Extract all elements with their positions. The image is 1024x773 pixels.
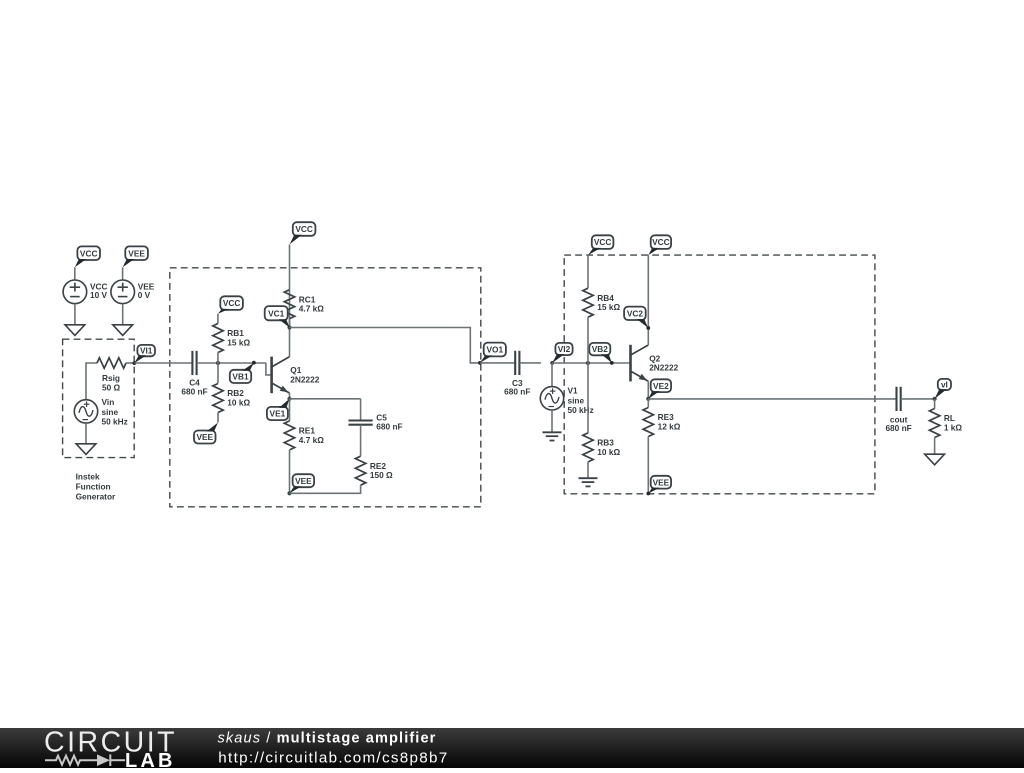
voltage source VCC [63,280,87,304]
svg-text:VE2: VE2 [653,381,669,391]
wire RE1 bottom [289,450,291,493]
node VCC [588,235,613,255]
node VE1 [267,399,290,420]
voltage source Vin (sine) [74,400,97,423]
wire VC1 to VO1 [290,328,480,363]
capacitor C5 [349,412,403,431]
node VCC [290,222,316,244]
svg-text:VC2: VC2 [627,308,644,318]
junction RB divider node stage2 [586,361,590,365]
resistor RB3 [583,433,621,462]
wire RL top [934,399,936,409]
wire C5 top [360,399,362,421]
resistor Rsig [97,358,126,393]
node VE2 [648,379,671,399]
wire [122,304,124,325]
capacitor C4 [181,351,207,397]
svg-text:VCC: VCC [295,224,313,234]
node VI2 [550,343,572,365]
wire V1 top [551,363,553,387]
wire [85,423,87,444]
wire VE1 to C5 [290,398,361,400]
svg-text:skaus / multistage amplifier: skaus / multistage amplifier [218,731,437,747]
svg-text:sine: sine [102,407,119,417]
capacitor cout [885,387,911,433]
junction VE2 node [646,397,650,401]
svg-text:10 V: 10 V [90,290,108,300]
node VCC [648,235,671,255]
annotation box Instek Function Generator [63,339,135,457]
resistor RL [929,409,962,438]
transistor Q2 [631,345,679,382]
wire Q1 base jog [266,363,271,375]
svg-text:VI2: VI2 [558,344,571,354]
resistor RB1 [213,324,251,353]
value label Vin sine 50 kHz [102,397,128,426]
wire RB1 top [217,314,219,324]
capacitor C3 [504,351,530,397]
ground (triangle) [113,325,133,336]
svg-text:Instek: Instek [76,472,100,482]
wire [122,267,124,280]
resistor RE1 [284,421,324,450]
svg-text:VCC: VCC [80,248,98,258]
svg-text:2N2222: 2N2222 [649,363,678,373]
svg-text:VI1: VI1 [140,346,153,356]
node VI1 [132,345,155,365]
wire RB2 bottom [217,413,219,423]
wire C3 right [520,362,541,364]
svg-text:10 kΩ: 10 kΩ [597,447,620,457]
wire RB1 bottom [217,353,219,364]
junction VC1 node [287,325,291,329]
junction VEE node stage1 [287,491,291,495]
wire RE2 bottom rail [290,485,361,493]
svg-text:http://circuitlab.com/cs8p8b7: http://circuitlab.com/cs8p8b7 [218,749,448,766]
ground (triangle) [65,325,85,336]
wire Q1 collector [289,328,291,357]
node VEE [194,423,218,444]
wire [134,362,192,364]
svg-text:50 Ω: 50 Ω [102,383,121,393]
anchor VB2 [610,361,614,365]
ground (bars) [543,432,562,440]
svg-text:50 kHz: 50 kHz [568,405,594,415]
svg-text:VEE: VEE [196,432,213,442]
svg-text:2N2222: 2N2222 [290,375,319,385]
wire [86,363,97,400]
wire RC1 top [289,290,291,328]
svg-text:vI: vI [941,380,948,390]
resistor RE3 [643,408,681,437]
node VEE [646,476,671,496]
junction base divider node [216,361,220,365]
wire VE2 to cout [648,398,896,400]
svg-text:680 nF: 680 nF [885,423,911,433]
wire RB3 top [587,363,589,433]
wire cout to RL [901,398,935,400]
wire [126,362,134,364]
svg-text:10 kΩ: 10 kΩ [227,398,250,408]
junction VE1 node [287,397,291,401]
svg-text:150 Ω: 150 Ω [370,470,393,480]
wire RC1 bottom [289,319,291,328]
svg-text:0 V: 0 V [138,290,151,300]
svg-text:Vin: Vin [102,397,115,407]
node VB2 [589,343,612,363]
node VCC [218,296,243,314]
svg-text:680 nF: 680 nF [181,387,207,397]
resistor RB2 [213,384,251,413]
voltage source V1 (sine) [540,387,563,410]
svg-text:680 nF: 680 nF [504,387,530,397]
resistor RE2 [355,456,393,485]
wire RE3 top [647,399,649,408]
svg-text:VEE: VEE [653,477,670,487]
annotation text Instek Function Generator [76,472,116,502]
svg-text:4.7 kΩ: 4.7 kΩ [299,304,324,314]
svg-text:VEE: VEE [295,476,312,486]
svg-text:VCC: VCC [223,298,241,308]
svg-text:VB1: VB1 [232,372,249,382]
svg-text:Generator: Generator [76,491,116,501]
node VEE [123,246,148,267]
resistor RB4 [583,288,621,317]
annotation box stage 2 [564,255,875,494]
node VC1 [265,306,290,327]
wire RB3 bottom [587,462,589,478]
wire RB4 top [587,255,589,288]
svg-text:12 kΩ: 12 kΩ [658,422,681,432]
svg-text:LAB: LAB [125,750,176,768]
node vI [935,379,951,399]
svg-text:Function: Function [76,482,111,492]
wire [74,267,76,280]
wire VO1 to C3 [480,362,515,364]
svg-text:4.7 kΩ: 4.7 kΩ [299,435,324,445]
wire RB2 top [217,363,219,383]
svg-text:VE1: VE1 [270,409,286,419]
wire RL bottom [934,438,936,455]
node VEE [290,474,315,493]
wire Q2 collector to VCC [647,255,649,345]
ground (triangle) [925,454,945,465]
svg-text:VEE: VEE [128,248,145,258]
wire VI2 to Q2 base [552,362,630,364]
svg-text:VC1: VC1 [268,308,285,318]
wire RE1 top [289,399,291,421]
svg-text:VB2: VB2 [592,344,609,354]
voltage source VEE [111,280,135,304]
wire Q1 emitter [289,393,291,399]
wire RB4 bottom [587,317,589,363]
junction vI node [933,397,937,401]
svg-text:VCC: VCC [594,237,612,247]
svg-text:1 kΩ: 1 kΩ [944,423,963,433]
value label VEE 0 V [138,282,155,300]
wire to VCC [289,244,291,289]
wire [197,362,266,364]
anchor VC2 [646,326,650,330]
annotation box stage 1 [170,268,481,507]
transistor Q1 [272,357,320,394]
ground (bars) [579,478,598,486]
node VCC [75,246,100,267]
value label V1 sine 50 kHz [568,386,594,415]
svg-text:sine: sine [568,395,585,405]
svg-text:VO1: VO1 [486,345,503,355]
svg-text:680 nF: 680 nF [376,421,402,431]
value label VCC 10 V [90,282,108,300]
svg-text:15 kΩ: 15 kΩ [597,302,620,312]
svg-text:Rsig: Rsig [102,373,120,383]
CircuitLab logo resistor-diode glyph [45,754,125,766]
resistor RC1 [284,290,324,319]
wire C5 to RE2 [360,425,362,456]
node VB1 [230,361,256,383]
wire RE3 bottom [647,437,649,494]
node VO1 [478,343,506,365]
wire [74,304,76,325]
svg-text:VCC: VCC [652,237,670,247]
ground (triangle) [76,444,96,455]
node VC2 [624,307,648,328]
svg-text:50 kHz: 50 kHz [102,417,128,427]
wire Q2 emitter [647,381,649,399]
svg-text:15 kΩ: 15 kΩ [227,338,250,348]
svg-text:V1: V1 [568,386,579,396]
wire V1 bottom [551,410,553,432]
